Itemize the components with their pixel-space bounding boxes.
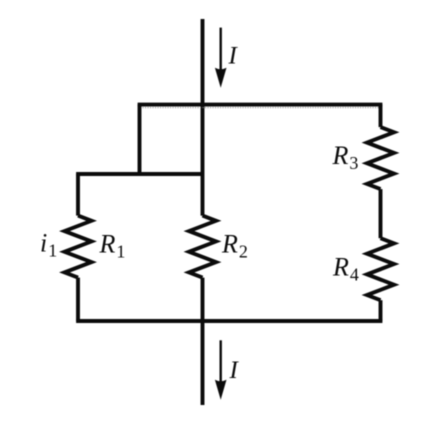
svg-text:i1: i1	[40, 228, 57, 260]
wire left branch upper	[76, 174, 80, 216]
resistor R1	[65, 216, 92, 278]
wire mid bus	[76, 172, 202, 176]
resistor R2	[189, 216, 216, 278]
svg-text:R4: R4	[332, 252, 359, 284]
wire top feed vertical	[201, 19, 205, 216]
wire right branch upper	[379, 105, 383, 128]
wire bottom bus	[76, 319, 382, 323]
wire left drop from top bus	[138, 105, 142, 175]
wire left branch lower	[76, 278, 80, 321]
wire center bottom through node	[201, 278, 205, 405]
svg-text:I: I	[228, 43, 239, 70]
wire top bus stipple fringe	[140, 107, 381, 109]
wire top bus	[138, 103, 383, 107]
wire right branch middle	[379, 189, 383, 238]
svg-text:R2: R2	[221, 230, 248, 262]
resistor R3	[367, 127, 394, 189]
current arrow I top	[215, 28, 227, 88]
resistor R4	[367, 238, 394, 300]
svg-text:R1: R1	[99, 230, 126, 262]
wire right branch lower	[379, 300, 383, 321]
current arrow I bottom	[215, 340, 227, 399]
svg-text:I: I	[229, 357, 240, 384]
svg-text:R3: R3	[332, 141, 359, 173]
